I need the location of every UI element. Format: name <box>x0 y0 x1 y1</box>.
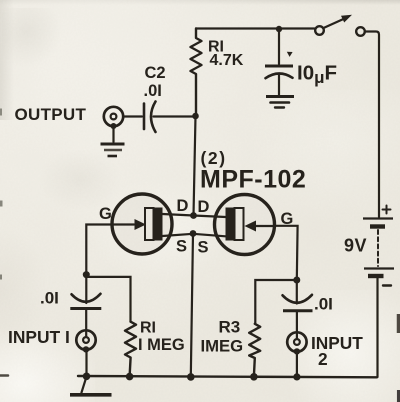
node drains <box>190 212 197 219</box>
wire output jack to ground <box>112 127 114 142</box>
battery B1 plus sign <box>383 206 391 214</box>
Q1 channel bar <box>154 208 163 241</box>
wire Q2 gate down <box>275 226 298 280</box>
node jack2 bottom <box>294 348 300 354</box>
wire 10uF branch <box>278 29 280 64</box>
jack J1 INPUT1 outer <box>76 330 95 349</box>
capacitor 10uF bottom plate <box>266 73 293 78</box>
jack J2 inner <box>294 339 300 345</box>
wire jack to C2 <box>123 115 142 117</box>
Q1 gate arrow <box>135 219 147 230</box>
node rail jack1 <box>83 373 91 381</box>
capacitor C2 left plate <box>143 104 146 130</box>
Q2 drain lead <box>194 216 226 218</box>
wire cap to jack2 <box>296 312 298 339</box>
node rail R1meg <box>126 373 134 381</box>
node jack ground <box>111 123 117 129</box>
node gate1 junction <box>83 271 90 278</box>
wire jack2 to rail <box>296 352 298 376</box>
battery bottom short plate <box>368 274 384 278</box>
edge artifact <box>0 374 8 377</box>
node sources <box>190 230 197 237</box>
Q2 channel bar <box>226 208 235 241</box>
edge artifact <box>397 314 400 333</box>
wire source rail <box>191 234 193 378</box>
polarity mark <box>287 52 293 57</box>
wire branch to R1meg <box>86 277 130 322</box>
Q1 drain lead <box>163 214 194 216</box>
Q1 gate lead <box>113 223 135 225</box>
wire drain rail <box>194 116 196 216</box>
battery minus sign <box>383 284 391 286</box>
battery top short plate <box>370 224 385 228</box>
wire branch to R3 <box>255 280 296 324</box>
jack J3 inner <box>111 114 117 120</box>
Q2 gate arrow <box>245 221 257 232</box>
wire gate2 to cap <box>296 280 298 304</box>
switch S1 left terminal <box>315 26 324 35</box>
transistor Q2 circle <box>215 195 275 255</box>
resistor R3 1MEG <box>249 324 260 377</box>
ground (bottom) stem <box>82 377 87 393</box>
edge artifact <box>0 109 2 116</box>
edge artifact <box>0 275 2 280</box>
jack J2 INPUT2 outer <box>287 332 306 351</box>
node junction top rail / 10uF <box>276 26 282 32</box>
node rail jack2 <box>293 373 300 380</box>
edge artifact <box>397 390 400 402</box>
battery bottom long plate <box>364 267 394 269</box>
capacitor 10uF top plate <box>265 65 293 68</box>
wire battery to bottom rail <box>376 278 378 377</box>
switch arrowhead <box>341 15 352 23</box>
Q2 gate plate <box>235 208 244 240</box>
wire jack1 to rail <box>85 350 87 376</box>
jack J1 inner <box>83 337 89 343</box>
capacitor C3 .01 top plate (curved) <box>283 295 313 303</box>
battery dashed middle <box>377 230 379 266</box>
wire switch to battery <box>365 32 379 218</box>
Q2 gate lead <box>256 225 275 227</box>
ground (10uF) <box>266 95 294 98</box>
transistor Q1 circle <box>112 194 172 254</box>
node junction R1 / C2 / drain rail <box>192 113 199 120</box>
Q1 gate plate <box>145 208 154 240</box>
Q2 source lead <box>193 234 226 237</box>
capacitor C3 bottom plate <box>283 309 313 312</box>
wire top rail <box>196 27 315 29</box>
wire gate1 to cap <box>85 275 87 303</box>
battery top long plate <box>363 217 393 219</box>
capacitor C1 bottom plate <box>70 307 101 310</box>
Q1 source lead <box>163 234 194 236</box>
ground (output jack) <box>101 143 125 146</box>
capacitor C2 right plate <box>151 102 156 133</box>
node gate2 junction <box>293 277 300 284</box>
wire cap to jack1 <box>85 310 87 337</box>
node jack1 bottom <box>83 346 89 352</box>
switch lever <box>324 19 345 28</box>
paper mottling <box>0 0 400 5</box>
wire Q1 gate down <box>86 225 112 275</box>
jack J3 OUTPUT outer <box>104 107 123 126</box>
node rail R3 <box>250 373 258 381</box>
resistor R1 1MEG <box>125 322 136 377</box>
switch right terminal <box>356 27 365 36</box>
wire 10uF to ground <box>278 75 280 97</box>
wire bottom rail <box>78 376 377 377</box>
wire C2 to junction <box>154 115 196 117</box>
ground (bottom) bar <box>70 393 112 397</box>
capacitor C1 .01 top plate (curved) <box>72 294 101 302</box>
resistor R1 4.7K <box>191 29 202 117</box>
edge artifact <box>0 201 3 207</box>
node rail source <box>187 373 195 381</box>
